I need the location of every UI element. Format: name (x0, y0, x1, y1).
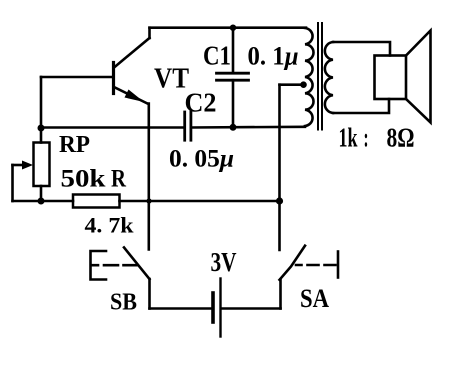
transistor VT base bar (112, 63, 115, 94)
svg-text:0. 1μ: 0. 1μ (248, 42, 299, 71)
svg-text:0. 05μ: 0. 05μ (169, 146, 234, 173)
switch SA actuator dashed link (296, 264, 336, 267)
svg-text:C1: C1 (203, 41, 231, 71)
wire wiper down (11, 165, 14, 201)
switch SA lever bar (337, 252, 340, 278)
wire bottom left to battery (150, 307, 212, 310)
wire wiper to node B (13, 200, 42, 203)
potentiometer RP wiper arrowhead (22, 161, 33, 170)
transformer T1 core line right (321, 23, 323, 130)
capacitor C1 bottom lead (232, 80, 235, 127)
capacitor C2 left plate (183, 112, 186, 140)
wire tap vertical down to SA contact (278, 85, 281, 250)
node D dot C1 bottom junction (230, 124, 237, 131)
wire rail2 right segment (120, 200, 280, 203)
capacitor C1 top lead (232, 28, 235, 73)
svg-text:SB: SB (110, 290, 137, 316)
transformer T1 secondary winding (325, 42, 333, 113)
switch SA blade (280, 246, 306, 280)
wire rail1 left of C2 (41, 126, 185, 129)
wire RP top lead (40, 128, 43, 143)
wire SB bottom vertical (148, 279, 151, 309)
svg-text:R: R (111, 166, 127, 193)
wire rail2 left segment (41, 200, 73, 203)
node A dot base/RP/rail junction (38, 125, 45, 132)
wire RP bottom lead (40, 186, 43, 201)
speaker BL driver body (375, 56, 407, 100)
wire collector vertical (148, 28, 151, 38)
node C dot rail2/tap-line junction (276, 197, 283, 204)
node emitter-rail2 small dot (146, 198, 151, 203)
svg-text:50k: 50k (61, 166, 106, 193)
svg-text:3V: 3V (211, 247, 237, 277)
transistor Q VT collector diagonal (114, 38, 150, 68)
transformer T1 core line left (317, 23, 319, 130)
wire tap horizontal (280, 83, 304, 86)
capacitor C2 right plate (189, 112, 192, 140)
battery GB negative short plate (211, 293, 215, 322)
wire rail1 right of C2 (191, 126, 305, 129)
capacitor C1 top plate (217, 72, 249, 75)
wire base to node A vertical (40, 77, 43, 128)
switch SB button bracket (91, 251, 107, 280)
capacitor C1 bottom plate (217, 79, 249, 82)
transformer T1 primary winding (305, 28, 314, 126)
svg-text:RP: RP (59, 132, 90, 158)
wire base horizontal (41, 76, 113, 79)
wire SA bottom vertical (279, 280, 282, 309)
wire secondary top to speaker (333, 42, 390, 56)
node B dot RP bottom/wiper junction (38, 198, 45, 205)
wire top rail collector to transformer (150, 26, 307, 29)
wire bottom right from battery (222, 307, 281, 310)
node F dot primary center tap (300, 81, 307, 88)
switch SB top contact handled by emitter line; SB blade (124, 248, 150, 280)
potentiometer RP body (34, 143, 50, 187)
node E dot C1 top junction (230, 25, 236, 31)
battery GB positive long plate (219, 279, 221, 337)
wire emitter vertical down to SB contact (148, 104, 151, 250)
transistor VT emitter diagonal (114, 87, 148, 104)
svg-text:4. 7k: 4. 7k (85, 213, 135, 238)
transistor VT emitter arrow (125, 90, 145, 103)
wire secondary bottom to speaker (333, 99, 389, 113)
speaker BL cone (406, 31, 431, 123)
resistor R body (73, 195, 120, 208)
svg-text:SA: SA (300, 284, 329, 313)
potentiometer RP wiper arrow line (13, 164, 26, 167)
svg-text:C2: C2 (185, 88, 217, 118)
switch SB actuator dashed link (91, 264, 138, 267)
